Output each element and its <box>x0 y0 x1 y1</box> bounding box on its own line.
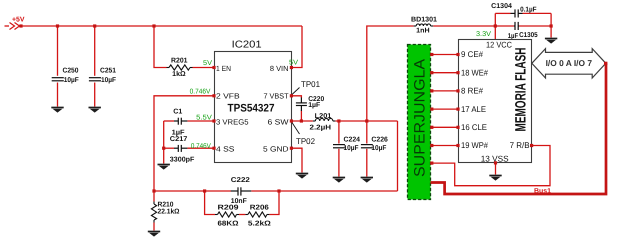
junction pin 7 R/B <box>530 144 533 147</box>
resistor R206 <box>245 214 248 216</box>
wire R210 branch <box>153 191 155 231</box>
junction pin 13 VSS <box>494 161 497 164</box>
wire R/B net <box>431 146 551 186</box>
svg-text:2.2µH: 2.2µH <box>310 124 332 131</box>
svg-text:1µF: 1µF <box>308 102 321 109</box>
svg-text:1 EN: 1 EN <box>216 64 231 73</box>
svg-text:68KΩ: 68KΩ <box>218 220 239 227</box>
memoria flash box <box>459 40 532 163</box>
wire 3.3V rail <box>367 26 496 121</box>
svg-text:SUPERJUNGLA: SUPERJUNGLA <box>412 59 429 177</box>
svg-text:3.3V: 3.3V <box>476 31 491 38</box>
svg-text:0.746V: 0.746V <box>191 143 211 150</box>
svg-text:5.5V: 5.5V <box>196 114 212 121</box>
capacitor C224 <box>333 145 345 148</box>
svg-text:TPS54327: TPS54327 <box>228 103 275 115</box>
svg-text:5.2kΩ: 5.2kΩ <box>248 219 271 227</box>
capacitor C1304 <box>511 9 523 17</box>
svg-text:10µF: 10µF <box>344 145 360 152</box>
svg-text:2 VFB: 2 VFB <box>216 91 240 100</box>
wire VBST C220 branch <box>291 96 301 121</box>
junction pin 6 SW <box>290 119 293 122</box>
wire C1 branch <box>164 121 214 164</box>
junction RE# pins <box>430 89 459 92</box>
svg-text:5 GND: 5 GND <box>263 145 289 154</box>
junction rail R201 <box>152 24 155 27</box>
capacitor C1305 <box>514 22 519 30</box>
svg-text:7 R/B: 7 R/B <box>510 140 530 150</box>
svg-text:16 CLE: 16 CLE <box>461 122 487 132</box>
svg-text:+5V: +5V <box>12 17 25 24</box>
bus arrow I/O 0 A I/O 7 <box>532 49 606 78</box>
svg-text:TP01: TP01 <box>301 79 320 89</box>
junction WE# pins <box>430 71 459 74</box>
svg-text:22.1kΩ: 22.1kΩ <box>158 207 180 215</box>
junction bus arrow tip <box>604 62 607 65</box>
svg-text:C1: C1 <box>173 108 182 115</box>
junction pin 3 VREG5 <box>212 119 215 122</box>
capacitor C222 <box>231 187 252 195</box>
capacitor C226 <box>361 145 373 148</box>
ground <box>89 108 101 113</box>
ground <box>51 108 63 113</box>
ground <box>158 165 170 170</box>
svg-text:L201: L201 <box>315 113 332 120</box>
junction C224 SW node <box>337 119 340 122</box>
superjungla block <box>408 45 431 200</box>
ground <box>148 232 160 237</box>
capacitor C217 <box>174 145 187 152</box>
svg-text:C251: C251 <box>100 68 116 75</box>
ground <box>333 178 345 183</box>
svg-text:C217: C217 <box>170 136 188 143</box>
svg-text:IC201: IC201 <box>232 40 262 51</box>
resistor R201 <box>167 67 170 69</box>
svg-text:C224: C224 <box>344 136 361 143</box>
svg-text:C222: C222 <box>231 177 250 184</box>
junction R209 top <box>203 189 206 192</box>
junction pin 1 EN <box>212 66 215 69</box>
svg-text:BD1301: BD1301 <box>411 16 437 23</box>
wire R201 feed <box>154 26 214 68</box>
junction pin 7 VBST <box>290 94 293 97</box>
svg-text:C1305: C1305 <box>519 32 538 39</box>
capacitor C250 <box>52 78 64 81</box>
wire C1304 C1305 loop <box>495 13 551 39</box>
op-amp IC201 box <box>215 52 292 163</box>
svg-text:7 VBST: 7 VBST <box>264 91 289 100</box>
ground <box>545 39 557 44</box>
wire VFB <box>154 96 214 191</box>
wire VSS ground <box>495 163 497 175</box>
svg-text:MEMORIA FLASH: MEMORIA FLASH <box>513 48 530 132</box>
wire memory pins <box>431 55 459 146</box>
svg-text:R206: R206 <box>250 204 269 211</box>
ground <box>296 174 308 179</box>
junction R210 VFB node <box>152 189 155 192</box>
wire C250 branch <box>57 26 59 107</box>
wire C251 branch <box>94 26 96 107</box>
svg-text:R209: R209 <box>218 204 239 211</box>
wire VIN feed <box>291 26 302 68</box>
wire +5V rail <box>5 25 303 27</box>
test point TP02 <box>292 123 300 135</box>
junction pin 8 VIN <box>290 66 293 69</box>
resistor R209 <box>215 214 218 216</box>
junction pin 4 SS <box>212 147 215 150</box>
svg-text:1nH: 1nH <box>416 28 429 35</box>
junction superjungla R/B <box>430 162 433 165</box>
wire Bus1 thick <box>431 63 607 194</box>
wire feedback horizontal <box>154 121 398 191</box>
junction C220 SW node <box>300 119 303 122</box>
capacitor C220 <box>296 98 307 112</box>
ground <box>361 178 373 183</box>
junction CLE pins <box>430 126 459 129</box>
svg-text:6 SW: 6 SW <box>268 117 290 126</box>
svg-text:10µF: 10µF <box>64 77 80 84</box>
junction C226 SW node <box>365 119 368 122</box>
junction VCC rail right <box>550 24 553 27</box>
input port arrow +5V <box>10 23 20 30</box>
svg-text:4 SS: 4 SS <box>216 145 235 154</box>
svg-text:5V: 5V <box>289 60 298 67</box>
svg-text:0.1µF: 0.1µF <box>520 6 537 13</box>
junction pin 2 VFB <box>212 94 215 97</box>
wire C224 branch <box>338 121 340 177</box>
svg-text:TP02: TP02 <box>296 136 315 146</box>
svg-text:3300pF: 3300pF <box>170 156 195 163</box>
junction rail C250 <box>56 24 59 27</box>
svg-text:1kΩ: 1kΩ <box>172 70 186 78</box>
junction ALE pins <box>430 108 459 111</box>
inductor BD1301 <box>414 25 417 27</box>
svg-text:C1304: C1304 <box>491 3 512 10</box>
junction rail C251 <box>93 24 96 27</box>
svg-text:12 VCC: 12 VCC <box>486 39 512 49</box>
wire SW output <box>291 120 397 122</box>
junction port +5V <box>19 24 22 27</box>
svg-text:C226: C226 <box>371 136 388 143</box>
svg-text:8 VIN: 8 VIN <box>270 64 289 73</box>
svg-text:0.746V: 0.746V <box>190 88 211 95</box>
junction CE# pins <box>430 53 459 56</box>
test point TP01 <box>292 88 300 95</box>
capacitor C1 <box>174 118 187 125</box>
svg-text:10µF: 10µF <box>371 145 387 152</box>
junction WP# pins <box>430 144 459 147</box>
svg-text:8 RE#: 8 RE# <box>461 86 483 96</box>
inductor L201 <box>313 120 316 122</box>
resistor R210 <box>153 202 155 205</box>
junction pin 5 GND <box>290 147 293 150</box>
svg-text:R201: R201 <box>171 58 188 65</box>
junction R206 top <box>277 189 280 192</box>
junction VCC rail left <box>494 24 497 27</box>
svg-text:5V: 5V <box>203 60 212 67</box>
svg-text:3 VREG5: 3 VREG5 <box>216 117 249 126</box>
capacitor C251 <box>89 78 101 81</box>
svg-text:17 ALE: 17 ALE <box>461 104 486 114</box>
svg-text:9 CE#: 9 CE# <box>461 49 483 59</box>
svg-text:19 WP#: 19 WP# <box>461 140 488 150</box>
ground <box>489 176 501 181</box>
wire R209 R206 branch <box>205 191 279 215</box>
svg-text:10µF: 10µF <box>101 77 117 84</box>
svg-text:Bus1: Bus1 <box>534 188 551 195</box>
wire C226 branch <box>366 121 368 177</box>
svg-text:I/O 0 A I/O 7: I/O 0 A I/O 7 <box>546 58 593 68</box>
wire GND pin 5 <box>291 148 302 172</box>
junction C217 left <box>162 147 165 150</box>
svg-text:C250: C250 <box>63 68 79 75</box>
svg-text:18 WE#: 18 WE# <box>461 67 488 77</box>
